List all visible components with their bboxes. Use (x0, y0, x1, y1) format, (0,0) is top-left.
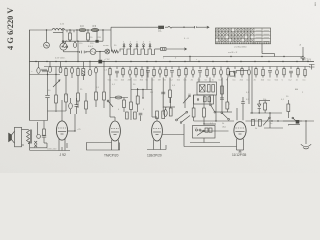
junction bus (155, 61, 156, 62)
heater chain humps (120, 49, 155, 55)
wire stub (153, 76, 155, 78)
wire tube1 top (61, 112, 63, 121)
capacitor C13 (71, 68, 74, 74)
inductor L1 mains choke (52, 28, 65, 30)
capacitor C18 (73, 43, 76, 48)
resistor R32 (287, 104, 290, 112)
resistor Rf2 (122, 69, 124, 75)
trimmer CT5 (149, 44, 151, 46)
resistor Rf16 (213, 69, 215, 75)
junction (271, 120, 272, 121)
wire (63, 50, 65, 52)
wire (76, 98, 78, 105)
wire stub (206, 67, 208, 70)
junction (74, 130, 75, 131)
wire stub (74, 41, 76, 42)
junction (87, 41, 88, 42)
crossed cap X2 (34, 144, 37, 147)
wire stub (159, 67, 161, 70)
paper grain (0, 0, 1, 1)
junction (76, 29, 77, 30)
wire (151, 78, 153, 118)
junction (77, 41, 78, 42)
junction bus (254, 61, 255, 62)
wire from tube3 (162, 134, 184, 136)
wire stub (262, 76, 264, 78)
wire x104 drop (103, 62, 105, 93)
junction (261, 56, 262, 57)
wire (259, 100, 270, 102)
junction (142, 97, 143, 98)
resistor R2 (87, 33, 90, 40)
junction (55, 74, 56, 75)
wire (209, 95, 211, 104)
junction bus (115, 61, 116, 62)
switch S1 mains (62, 41, 64, 43)
capacitor C8 (139, 113, 143, 115)
wire (165, 107, 167, 110)
junction (69, 29, 70, 30)
capacitor C10 (75, 105, 79, 107)
wire (71, 73, 73, 78)
terminal strip right (309, 65, 315, 70)
wire (287, 100, 289, 104)
wire (65, 76, 67, 95)
capacitor C17 (220, 98, 224, 100)
resistor R6 (55, 95, 58, 103)
wire stub (147, 72, 149, 78)
wire (38, 62, 40, 68)
wire (82, 76, 84, 81)
junction (87, 29, 88, 30)
switch S4b arm (180, 122, 182, 124)
resistor Rf5 (141, 69, 143, 75)
resistor R31 (258, 120, 261, 127)
wire grid line (194, 120, 234, 122)
resistor R3 series (112, 50, 119, 53)
wire stub (234, 67, 236, 70)
wire stub (165, 67, 167, 70)
resistor Rf29 (304, 69, 306, 75)
resistor R33 (103, 92, 106, 100)
wire (142, 90, 144, 99)
wire stub (135, 67, 137, 70)
wire (166, 48, 183, 50)
contact a (196, 129, 198, 131)
capacitor C6 (88, 70, 92, 76)
wire (237, 149, 244, 151)
wire (30, 120, 48, 122)
capacitor C11 (164, 110, 167, 117)
resistor R24 (85, 101, 88, 109)
wire matrix drop (261, 44, 263, 54)
wire (102, 30, 104, 41)
wire stub (199, 67, 201, 70)
output transformer TR core (31, 130, 32, 144)
wire (47, 71, 49, 75)
wire tube4 stub2 (242, 104, 244, 120)
wire (64, 51, 79, 53)
wire spk top (22, 129, 27, 131)
wire (131, 89, 152, 91)
resistor Rf11 (178, 69, 180, 75)
wire stub (304, 76, 306, 78)
wire stub (234, 73, 236, 78)
resistor R9 (95, 92, 98, 100)
AC input circle (44, 42, 50, 48)
wire (55, 103, 57, 112)
tick under tube4 (239, 151, 242, 153)
wire (37, 122, 39, 135)
resistor Rf23 (262, 69, 264, 75)
resistor R30 (251, 120, 254, 126)
wire (30, 147, 47, 149)
fuse F4 (37, 68, 40, 74)
wire tube1 pin (64, 138, 66, 151)
wire (221, 78, 223, 113)
wire (47, 111, 49, 121)
junction (99, 51, 100, 52)
wire stub (283, 67, 285, 70)
wire stub (213, 75, 215, 78)
wire (264, 101, 266, 104)
wire stub (116, 67, 118, 70)
wire (95, 73, 97, 92)
resistor R15 (162, 111, 165, 119)
wire stub (178, 67, 180, 70)
switch S9 contacts (292, 117, 294, 119)
wire stub (165, 76, 167, 78)
junction bus (35, 61, 36, 62)
capacitor C4 (48, 67, 51, 73)
wire tube2 top stub (114, 117, 116, 121)
terminal tick (195, 26, 197, 28)
wire stub (297, 75, 299, 78)
wire (96, 51, 105, 53)
wire (110, 116, 115, 118)
junction bus (184, 61, 185, 62)
wire (258, 109, 260, 113)
wire stub (147, 67, 149, 70)
junction bus (103, 61, 104, 62)
junction bus (268, 61, 269, 62)
junction bus (240, 61, 241, 62)
lamp LA1 dial lamp (105, 49, 110, 54)
capacitor C5 (45, 96, 49, 98)
wire (123, 108, 125, 113)
wire (203, 117, 205, 124)
wire (55, 67, 57, 81)
junction bus (146, 61, 147, 62)
switch S3 contact (107, 100, 109, 102)
wire (165, 145, 167, 150)
wire stub (141, 67, 143, 70)
wire stub (192, 67, 194, 70)
wire left vertical to audio (29, 62, 31, 121)
wire (70, 109, 72, 114)
wire stub (269, 72, 271, 78)
resistor R8a (77, 69, 79, 76)
resistor Rf28 (297, 69, 299, 75)
thermistor wiggle (165, 26, 175, 28)
bus heater line (44, 66, 310, 68)
wire dial chain (111, 26, 158, 28)
junction (251, 112, 252, 113)
wire stub (276, 75, 278, 78)
wire (47, 75, 49, 96)
wire (87, 30, 89, 33)
wire (44, 142, 47, 144)
resistor R11 (123, 100, 126, 108)
wire (77, 101, 79, 108)
junction (283, 56, 284, 57)
resistor R18 (134, 112, 137, 119)
wire stub (185, 75, 187, 78)
junction bus (226, 61, 227, 62)
tube V2 TMCP20 (110, 121, 121, 141)
trimmer CT4 (143, 44, 145, 46)
wire to switch (62, 30, 64, 41)
junction bus (296, 61, 297, 62)
wire (203, 138, 205, 143)
junction (62, 29, 63, 30)
wire (110, 46, 113, 52)
wire tube4 left pin (200, 130, 229, 132)
resistor Rf4 (135, 69, 137, 75)
tube V1 output J92 (56, 121, 67, 140)
wire (82, 62, 84, 69)
wire riser (110, 27, 112, 30)
wire stub (262, 67, 264, 70)
wire (70, 98, 72, 103)
wire (49, 62, 51, 67)
junction bus (65, 61, 66, 62)
wire (162, 95, 164, 108)
speaker LS frame (12, 131, 15, 143)
wire stub (220, 67, 222, 70)
wire tube4 pin (236, 139, 238, 150)
junction bus (89, 61, 90, 62)
wire junction bar (63, 40, 103, 42)
wire stub (227, 75, 229, 78)
junction (215, 120, 216, 121)
resistor R20 (203, 108, 206, 117)
connector K1 (159, 26, 164, 29)
wire tube4 stub (236, 108, 238, 120)
wire pair feed (236, 70, 248, 72)
wire (85, 93, 87, 101)
wire (198, 78, 200, 83)
capacitor Cf8 (159, 69, 162, 74)
wire stub (206, 76, 208, 78)
wire (43, 121, 45, 130)
trimmer CT1 (123, 44, 125, 46)
wire stub (116, 73, 118, 78)
wire to ground (305, 121, 307, 141)
wire stub (185, 67, 187, 70)
wire (62, 41, 64, 43)
wire (204, 123, 216, 125)
wire (175, 26, 195, 28)
resistor Rf20 (241, 69, 243, 75)
wire (69, 40, 71, 41)
junction (230, 56, 231, 57)
junction bus (307, 61, 308, 62)
arrow top chain (205, 26, 209, 28)
junction bus (55, 61, 56, 62)
capacitor Ck10 (170, 70, 174, 72)
junction (77, 51, 78, 52)
wire (61, 147, 63, 151)
wire stub (171, 67, 173, 70)
wire (60, 62, 62, 68)
wire riser x147 (146, 67, 148, 90)
wire stub (220, 75, 222, 78)
wire (140, 116, 142, 122)
junction (46, 29, 47, 30)
wire (197, 26, 205, 28)
junction bus (169, 61, 170, 62)
wire (137, 88, 139, 96)
wire (264, 110, 266, 113)
resistor Rf15 (206, 69, 208, 75)
wire (43, 137, 45, 143)
resistor R7a (65, 69, 67, 76)
junction (142, 89, 143, 90)
connector K2 (161, 48, 167, 51)
wire (43, 134, 45, 137)
wire (183, 124, 185, 147)
junction bus (130, 61, 131, 62)
speaker LS horn (9, 133, 12, 141)
resistor R7 (65, 94, 68, 102)
inductor L1 core (53, 32, 63, 34)
cathode loop tube2 (87, 143, 120, 151)
ground symbol (301, 141, 311, 149)
wire (264, 127, 283, 129)
switch S8 arm (263, 118, 269, 125)
wire (89, 62, 91, 71)
wire spk bottom (28, 143, 30, 145)
capacitor Cf21 (248, 70, 251, 75)
resistor Rf26 (283, 69, 285, 75)
wire drop x111 (110, 30, 112, 46)
crossed box X4 (200, 85, 206, 93)
junction (183, 27, 184, 28)
capacitor Ck14 (198, 70, 202, 72)
wire (250, 112, 282, 114)
wire (109, 78, 111, 118)
wire lamp feed (99, 52, 101, 62)
trimmer CT2 (130, 44, 132, 46)
capacitor Cf17 (220, 70, 223, 75)
wire (96, 30, 98, 40)
junction (259, 112, 260, 113)
junction bus (198, 61, 199, 62)
resistor Rf12 (185, 69, 187, 75)
resistor R10 (82, 69, 85, 76)
wire (193, 117, 195, 121)
capacitor C9 (69, 103, 73, 109)
capacitor Cf3 (129, 70, 132, 75)
junction (189, 56, 190, 57)
resistor Rf22 (255, 69, 257, 75)
wire stub (255, 75, 257, 78)
wire (269, 113, 271, 128)
wire (65, 102, 67, 111)
wire (29, 141, 31, 151)
wire (65, 29, 111, 31)
wire stub (109, 67, 111, 70)
contact arm (197, 132, 203, 136)
capacitor Ck6 (146, 70, 150, 72)
capacitor Ck19 (233, 71, 237, 73)
circle contact (37, 135, 41, 139)
wire (74, 114, 76, 131)
bus B+ line (30, 61, 315, 63)
capacitor C12 (59, 67, 62, 73)
junction (269, 112, 270, 113)
wire tube3 pin (160, 140, 162, 150)
wire tube1 pin (58, 138, 60, 151)
wire x222 drop (221, 78, 223, 98)
resistor R12 (130, 102, 133, 110)
wire (287, 112, 289, 119)
tube V4 11E2P (234, 122, 246, 140)
wire (123, 98, 125, 101)
wire tube3 top stub (156, 117, 158, 121)
trimmer CT3 (136, 44, 138, 46)
junction (302, 56, 303, 57)
wire link to tube4 (184, 146, 237, 148)
wire audio bus (30, 74, 61, 76)
wire (95, 66, 97, 69)
resistor R19 (192, 108, 195, 117)
resistor Rh horizontal (115, 96, 121, 99)
junction (137, 89, 138, 90)
capacitor Cf25 (276, 70, 279, 75)
switch S10 arm (183, 97, 189, 104)
wire step (274, 54, 276, 57)
connector circle B (90, 49, 96, 55)
wire (242, 97, 244, 102)
wire (77, 76, 79, 94)
wire stub (122, 75, 124, 78)
wire (190, 142, 220, 144)
wire (216, 111, 232, 113)
capacitor C15 (42, 136, 46, 138)
wire (170, 98, 172, 109)
wire stub (199, 72, 201, 78)
detector box lower (194, 95, 214, 104)
resistor R1 (69, 33, 72, 40)
wire stub (290, 67, 292, 70)
junction (305, 120, 306, 121)
wire (77, 67, 79, 69)
wire detector line (246, 120, 315, 122)
wire (65, 67, 67, 69)
wire (147, 149, 166, 151)
wire vertical x78 (77, 41, 79, 61)
wire (85, 109, 87, 114)
resistor R34 (221, 86, 224, 94)
resistor R29 (264, 103, 267, 110)
wire join (48, 110, 67, 112)
wire stub (269, 67, 271, 70)
switch box (193, 126, 216, 139)
hatch in R10 (82, 71, 85, 76)
wire (226, 109, 228, 112)
